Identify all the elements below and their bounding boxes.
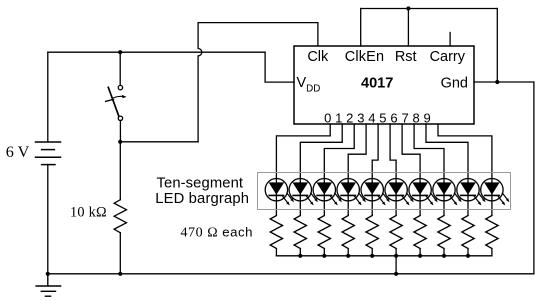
wire junction to clock riser	[120, 141, 198, 143]
svg-text:7: 7	[401, 110, 408, 125]
wire output 7 from pin to LED 8	[414, 124, 444, 216]
wire bottom ground rail	[48, 273, 534, 275]
ground symbol	[36, 274, 61, 296]
resistor R5 470 ohm	[342, 216, 354, 256]
node: resistor 8 on rail	[442, 254, 446, 258]
svg-text:470 Ω each: 470 Ω each	[181, 225, 254, 241]
LED D5	[361, 179, 390, 206]
wire output 9 from pin to LED 10	[438, 124, 492, 216]
LED D4	[337, 179, 366, 206]
wire ClkEn drop	[360, 9, 362, 47]
wire output 4 from pin to LED 5	[372, 124, 378, 216]
ten-segment bargraph package outline	[258, 173, 511, 210]
resistor R7 470 ohm	[390, 216, 402, 256]
svg-text:ClkEn: ClkEn	[345, 49, 384, 65]
wire Vdd feed: down then right into Vdd pin	[265, 52, 294, 82]
LED D10	[481, 179, 510, 206]
svg-text:4: 4	[368, 110, 375, 125]
node: switch / clock / resistor junction	[118, 140, 122, 144]
wire battery negative lead	[47, 165, 49, 274]
switch SW1 (momentary contact)	[106, 85, 127, 120]
wire output 1 from pin to LED 2	[300, 124, 342, 216]
resistor R3 470 ohm	[294, 216, 306, 256]
wire output 0 from pin to LED 1	[276, 124, 330, 216]
wire 10k bottom lead	[119, 233, 121, 274]
node: switch tap on top rail	[118, 50, 122, 54]
svg-text:Carry: Carry	[430, 49, 466, 65]
wire from rail down to switch	[119, 52, 121, 85]
wire clock feed into Clk pin	[198, 23, 318, 46]
node: 10k on ground rail	[118, 272, 122, 276]
node: Rst tie	[406, 6, 410, 10]
svg-text:Clk: Clk	[307, 49, 329, 65]
svg-text:2: 2	[346, 110, 353, 125]
LED D8	[433, 179, 462, 206]
wire top-left rail from battery to Vdd branch	[48, 51, 265, 53]
LED D3	[313, 179, 342, 206]
svg-text:Gnd: Gnd	[441, 76, 468, 92]
LED D2	[289, 179, 318, 206]
resistor R4 470 ohm	[318, 216, 330, 256]
node: resistor 4 on rail	[346, 254, 350, 258]
svg-text:Ten-segment: Ten-segment	[157, 176, 244, 192]
node: resistor 2 on rail	[298, 254, 302, 258]
resistor R6 470 ohm	[366, 216, 378, 256]
svg-text:5: 5	[379, 110, 386, 125]
wire rail down right side to Gnd line	[496, 9, 498, 83]
IC U1 4017 box	[294, 46, 474, 124]
node: resistor 3 on rail	[322, 254, 326, 258]
wire Gnd pin lead	[474, 81, 534, 83]
wire resistor common rail	[276, 255, 492, 257]
wire rail tap to ground rail	[395, 256, 397, 274]
wire switch bottom lead	[119, 121, 121, 142]
wire clock riser with hop over top rail	[198, 23, 202, 142]
wire output 8 from pin to LED 9	[426, 124, 468, 216]
wire 10k top lead	[119, 142, 121, 200]
svg-text:LED bargraph: LED bargraph	[155, 191, 249, 207]
LED D9	[457, 179, 486, 206]
resistor R2 470 ohm	[270, 216, 282, 256]
wire ClkEn/Rst/Gnd tie rail	[361, 8, 498, 10]
wire output 6 from pin to LED 7	[402, 124, 420, 216]
wire Rst drop	[407, 9, 409, 47]
wire Carry stub (unconnected)	[449, 33, 451, 47]
battery B1 6V	[36, 142, 61, 165]
resistor R8 470 ohm	[414, 216, 426, 256]
svg-text:6: 6	[390, 110, 397, 125]
LED D6	[385, 179, 414, 206]
resistor R11 470 ohm	[486, 216, 498, 256]
node: battery on ground rail	[46, 272, 50, 276]
wire right side down to ground rail	[533, 82, 535, 274]
svg-text:8: 8	[412, 110, 419, 125]
resistor R1 10k	[114, 200, 126, 233]
svg-text:6 V: 6 V	[6, 143, 30, 161]
wire output 2 from pin to LED 3	[324, 124, 354, 216]
wire output 3 from pin to LED 4	[348, 124, 366, 216]
wire battery positive lead	[47, 52, 49, 142]
node: resistor 5 on rail	[370, 254, 374, 258]
svg-text:0: 0	[324, 110, 331, 125]
svg-text:Rst: Rst	[395, 49, 417, 65]
svg-text:1: 1	[335, 110, 342, 125]
node: resistor 6 on rail	[394, 254, 398, 258]
resistor R9 470 ohm	[438, 216, 450, 256]
svg-text:9: 9	[423, 110, 430, 125]
resistor R10 470 ohm	[462, 216, 474, 256]
LED D1	[265, 179, 294, 206]
node: tap on ground rail	[394, 272, 398, 276]
node: resistor 7 on rail	[418, 254, 422, 258]
node: Gnd tie	[495, 80, 499, 84]
svg-text:10 kΩ: 10 kΩ	[70, 204, 107, 220]
svg-text:3: 3	[357, 110, 364, 125]
LED D7	[409, 179, 438, 206]
svg-text:4017: 4017	[361, 76, 393, 92]
node: resistor 9 on rail	[466, 254, 470, 258]
wire output 5 from pin to LED 6	[390, 124, 396, 216]
